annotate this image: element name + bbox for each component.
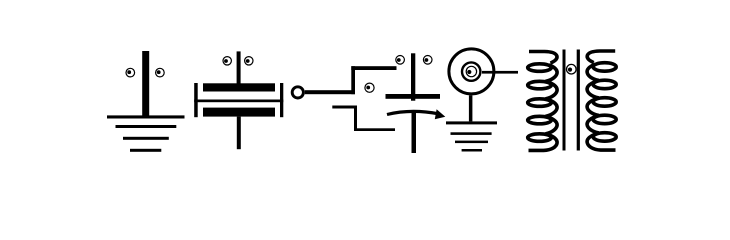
terminal dot left of C1 <box>223 57 231 65</box>
C1 bottom lead wire <box>237 117 241 150</box>
terminal dot right of C1 <box>245 57 253 65</box>
terminal dot mid <box>365 83 374 92</box>
C2 bottom lead wire <box>412 112 417 154</box>
wire lower run <box>354 128 395 131</box>
capacitor C1 top lead wire <box>237 51 241 83</box>
wire to ground <box>469 95 473 121</box>
stub wire drop <box>354 106 357 130</box>
terminal dot left of A1 <box>126 68 135 77</box>
terminal dot on core <box>567 64 577 74</box>
C1 right bracket <box>280 83 283 117</box>
wire top run <box>351 66 396 70</box>
terminal dot right of A1 <box>156 68 165 77</box>
C2 top lead wire <box>411 53 415 100</box>
ground G2 <box>446 121 497 151</box>
wire from terminal <box>305 90 355 94</box>
variometer center dot <box>467 70 471 74</box>
C2 rotor arc with arrow <box>387 111 439 114</box>
transformer core line right <box>577 50 580 151</box>
variometer inner circle <box>466 66 476 76</box>
C2 stator plate <box>386 94 441 99</box>
variometer outer circle <box>449 49 494 94</box>
transformer primary coil <box>528 52 557 151</box>
wire riser up <box>351 66 355 94</box>
transformer secondary coil <box>587 51 616 150</box>
variometer shaft pointer <box>482 71 518 74</box>
open terminal ring <box>292 87 303 98</box>
terminal dot left of C2 <box>396 56 405 65</box>
ground G1 <box>107 115 185 151</box>
terminal dot right of C2 <box>423 56 432 65</box>
transformer core line left <box>563 50 566 151</box>
C1 left bracket <box>194 83 198 117</box>
C1 middle plate <box>194 100 283 103</box>
stub wire upper <box>332 106 357 109</box>
C1 top plate <box>203 83 275 91</box>
C2 arrow head <box>435 109 446 119</box>
antenna plate A1 <box>142 51 149 117</box>
variometer middle circle <box>462 62 480 80</box>
C1 bottom plate <box>203 108 275 117</box>
